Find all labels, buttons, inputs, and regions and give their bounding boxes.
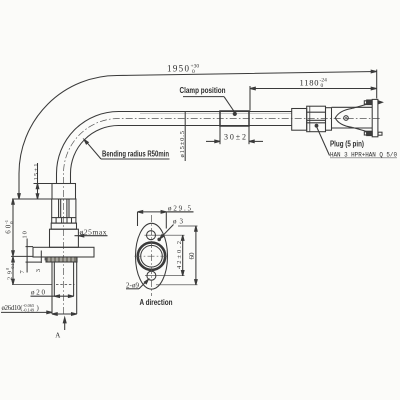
svg-text:ø20: ø20: [31, 289, 46, 297]
svg-text:-0.149: -0.149: [23, 308, 34, 313]
svg-text:ø25max: ø25max: [80, 227, 107, 236]
svg-text:30±2: 30±2: [224, 133, 246, 142]
svg-text:): ): [37, 305, 39, 312]
svg-text:60: 60: [5, 224, 13, 234]
svg-text:10: 10: [22, 231, 29, 239]
svg-text:0: 0: [192, 69, 195, 75]
svg-text:A direction: A direction: [140, 298, 173, 307]
svg-text:0: 0: [321, 83, 324, 89]
svg-text:Plug (5 pin): Plug (5 pin): [330, 140, 364, 149]
svg-text:1950: 1950: [167, 64, 190, 74]
svg-text:ø26d10(: ø26d10(: [2, 305, 24, 312]
svg-text:15±1: 15±1: [33, 164, 40, 181]
svg-text:Bending radius R50min: Bending radius R50min: [102, 150, 169, 159]
svg-text:Clamp position: Clamp position: [180, 86, 226, 95]
svg-text:2-ø9: 2-ø9: [126, 282, 140, 290]
svg-text:3: 3: [35, 269, 42, 272]
svg-text:ø15±0.5: ø15±0.5: [179, 131, 186, 158]
svg-text:60: 60: [188, 252, 196, 260]
svg-text:A: A: [55, 331, 60, 339]
svg-text:1180: 1180: [300, 78, 319, 88]
svg-text:HAN 3 HPR+HAN Q 5/0: HAN 3 HPR+HAN Q 5/0: [330, 152, 397, 159]
svg-text:-0.1: -0.1: [10, 263, 15, 270]
svg-text:0: 0: [5, 268, 10, 270]
